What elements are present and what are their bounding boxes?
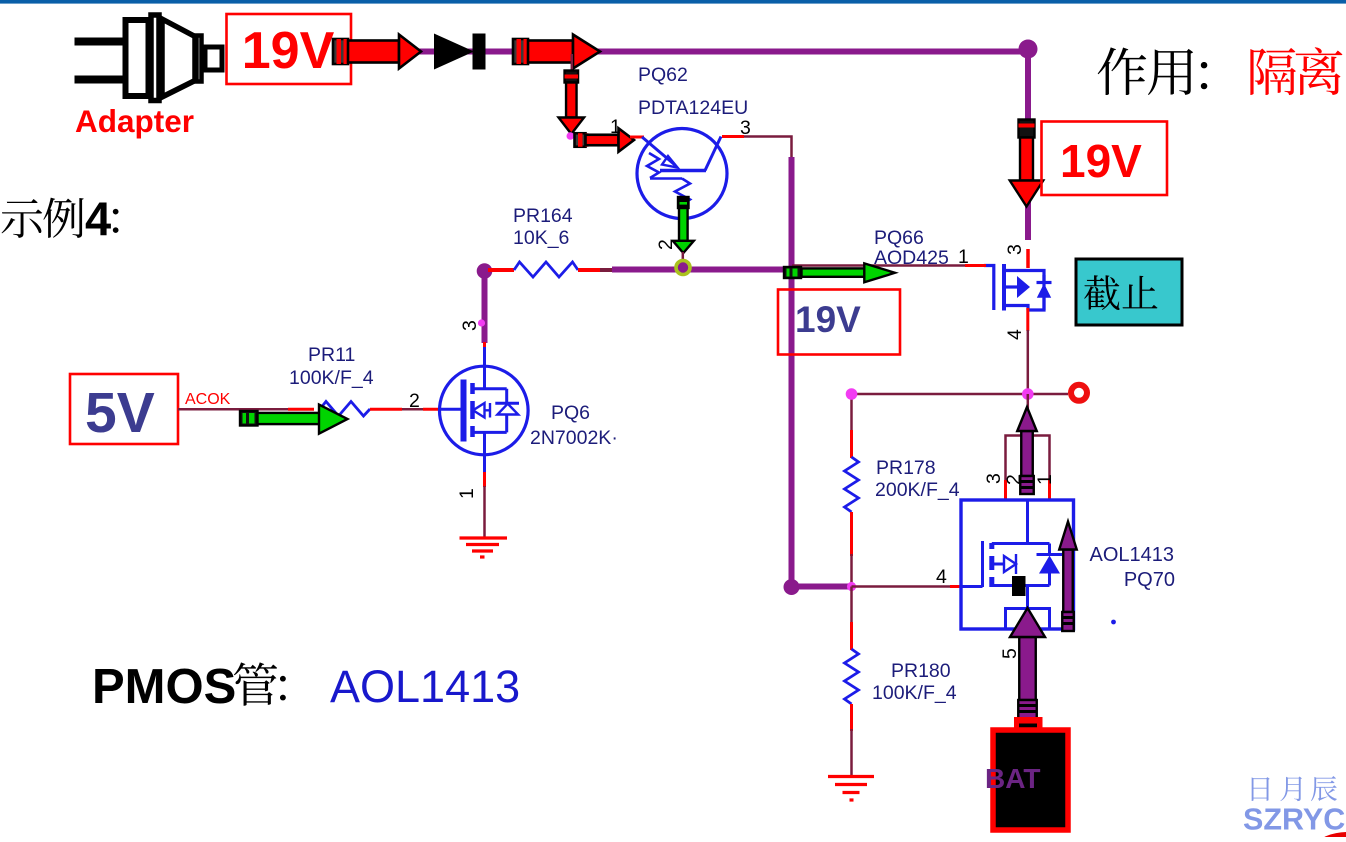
wire maroon to ground: [850, 729, 853, 776]
wire purple gate net: [612, 267, 802, 273]
wire maroon stub node to arrow: [1027, 394, 1030, 410]
node gate net left corner (purple): [477, 263, 493, 279]
wire purple down to PQ6 pin3: [482, 271, 488, 343]
wire maroon segment pin2: [402, 408, 423, 411]
wire vertical purple net: [789, 157, 795, 587]
svg-text:1: 1: [456, 488, 478, 499]
ground symbol (PQ6): [460, 538, 508, 557]
wire maroon PQ66 to node: [1027, 330, 1030, 394]
svg-text:200K/F_4: 200K/F_4: [875, 479, 960, 501]
svg-text:AOL1413: AOL1413: [1089, 544, 1174, 566]
wire red PQ6 gate: [423, 408, 441, 411]
node right (magenta): [1022, 388, 1034, 400]
black block (AOL1413 source mark): [1012, 576, 1026, 596]
flow arrow green right (ACOK): [240, 405, 348, 434]
wire red ACOK segment: [288, 408, 314, 411]
svg-text:5V: 5V: [85, 381, 155, 445]
wire red PR180 upper: [850, 622, 853, 650]
svg-text:ACOK: ACOK: [185, 391, 231, 408]
wire red AOL1413 pin4: [950, 585, 962, 588]
flow arrow red right #1: [333, 35, 421, 69]
wire red PR178 bottom: [850, 512, 853, 556]
svg-text:PMOS: PMOS: [92, 660, 236, 714]
svg-text:2: 2: [655, 239, 677, 250]
diode D1: [434, 34, 486, 70]
svg-text:PR11: PR11: [308, 344, 355, 366]
wire red segment PQ66 drain top: [1026, 249, 1030, 268]
wire maroon left node down: [850, 394, 853, 432]
svg-text:1: 1: [958, 246, 969, 268]
svg-text:3: 3: [459, 320, 481, 331]
node 19V corner junction: [1019, 40, 1038, 59]
svg-text:PR178: PR178: [876, 457, 936, 479]
wire red PR178 top: [850, 430, 853, 458]
wire stub to PQ62 base: [571, 54, 574, 72]
svg-text:100K/F_4: 100K/F_4: [289, 367, 374, 389]
flow arrow red down #3 (to PQ62 pin1): [559, 71, 585, 135]
label 作用：隔离: [1098, 47, 1343, 95]
node PQ6 pin3 (magenta): [478, 319, 485, 326]
wire red PQ6 pin3: [483, 342, 486, 348]
adapter plug icon: [75, 15, 223, 101]
svg-text:PDTA124EU: PDTA124EU: [638, 97, 748, 119]
svg-text:PR164: PR164: [513, 205, 573, 227]
svg-text:5: 5: [999, 648, 1021, 659]
svg-text:AOL1413: AOL1413: [330, 661, 520, 712]
svg-text:PQ66: PQ66: [874, 227, 924, 249]
wire maroon to AOL1413 pin4: [852, 585, 952, 588]
svg-text:4: 4: [1004, 329, 1026, 340]
wire maroon PR164 right: [600, 268, 613, 272]
svg-text:SZRYC: SZRYC: [1243, 803, 1345, 837]
svg-text:10K_6: 10K_6: [513, 227, 569, 249]
wire red PQ66 gate: [965, 264, 986, 267]
svg-text:AOD425: AOD425: [874, 247, 949, 269]
svg-text:19V: 19V: [795, 299, 861, 340]
wire PQ62 pin3 red: [722, 135, 744, 138]
wire stub green arrow to node: [682, 252, 685, 261]
flow arrow purple up (pins 1-2-3 to node): [1017, 407, 1037, 494]
battery BAT: [993, 717, 1068, 830]
ground symbol (PR180): [828, 777, 874, 801]
svg-text:PR180: PR180: [891, 660, 951, 682]
label box 5V: [70, 374, 178, 445]
flow arrow green right (to PQ66 gate): [784, 263, 895, 282]
svg-text:2: 2: [409, 390, 420, 412]
wire red PR180 bottom: [850, 704, 853, 731]
label 示例4：: [2, 192, 119, 245]
resistor PR178: [845, 457, 859, 512]
header bar: [0, 0, 1346, 4]
svg-text:2: 2: [1003, 474, 1025, 485]
svg-text:Adapter: Adapter: [75, 103, 194, 139]
svg-text:19V: 19V: [242, 22, 335, 80]
wire red PQ66 pin4: [1026, 308, 1029, 331]
svg-text:1: 1: [610, 116, 621, 138]
svg-text:1: 1: [1034, 474, 1056, 485]
wire purple corner to node: [792, 584, 854, 590]
svg-text:3: 3: [983, 473, 1005, 484]
node purple (vertical net bottom corner): [784, 579, 800, 595]
resistor PR164: [514, 262, 578, 277]
resistor PR180: [845, 649, 859, 704]
svg-text:PQ62: PQ62: [638, 64, 688, 86]
svg-text:3: 3: [1004, 244, 1026, 255]
resistor PR11: [320, 402, 370, 417]
flow arrow red right #4 (into PQ62 pin1): [575, 128, 635, 152]
wire red PR164 left: [488, 268, 514, 272]
label box 19V right: [1042, 122, 1168, 196]
transistor PQ62 PDTA124EU: [637, 129, 727, 219]
wire red PQ62 pin1: [630, 136, 644, 139]
wire maroon ACOK: [178, 408, 290, 411]
wire maroon node row: [852, 393, 1068, 396]
wire red PR164 right: [578, 268, 600, 272]
flow arrow purple up (inside AOL1413): [1059, 522, 1077, 632]
wire red PR11 right: [370, 408, 402, 411]
flow arrow red right #2: [513, 35, 600, 69]
flow arrow red down (19V to PQ66): [1010, 120, 1044, 207]
transistor PQ6 2N7002K: [440, 366, 529, 455]
svg-text:2N7002K·: 2N7002K·: [530, 427, 618, 449]
logo 日月辰 SZRYC: [1243, 776, 1346, 842]
wire red AOL1413 pin1: [1048, 480, 1051, 500]
wire maroon PR180 top: [850, 587, 853, 625]
label box 截止 (cutoff): [1076, 259, 1182, 325]
wire maroon staple (AOL1413 pins 3-1): [1006, 436, 1050, 482]
svg-text:PQ70: PQ70: [1124, 569, 1175, 591]
node green ring junction: [676, 261, 690, 275]
transistor PQ66 AOD425: [984, 264, 1052, 311]
node mid (magenta): [847, 582, 856, 591]
svg-text:4: 4: [936, 566, 947, 588]
node left (magenta): [846, 388, 858, 400]
dot decoration blue: [1111, 620, 1116, 625]
label box 19V gate: [778, 290, 900, 355]
svg-text:19V: 19V: [1060, 135, 1142, 187]
flow arrow purple up (BAT to AOL1413): [1010, 608, 1045, 720]
wire 19V adapter rail: [342, 42, 1028, 241]
wire PQ62 pin3 maroon to corner: [744, 137, 792, 159]
terminal red ring: [1071, 385, 1087, 401]
transistor PQ70 AOL1413 (PMOS pack): [961, 500, 1074, 629]
flow arrow green down (PQ62 pin2): [673, 197, 694, 253]
label box 19V adapter output: [227, 14, 352, 84]
svg-text:4: 4: [85, 192, 111, 245]
svg-text:BAT: BAT: [985, 763, 1040, 794]
wire maroon PQ66 gate: [792, 264, 965, 267]
wire maroon to mid node: [850, 554, 853, 587]
svg-text:100K/F_4: 100K/F_4: [872, 682, 957, 704]
node PQ62 pin1 (magenta): [567, 132, 575, 140]
wire red PQ6 pin1: [483, 455, 486, 473]
svg-text:PQ6: PQ6: [551, 402, 590, 424]
label PMOS管：AOL1413: [92, 660, 520, 714]
wire red AOL1413 pin3: [1004, 480, 1007, 500]
wire maroon PQ6 source to ground: [483, 486, 486, 537]
